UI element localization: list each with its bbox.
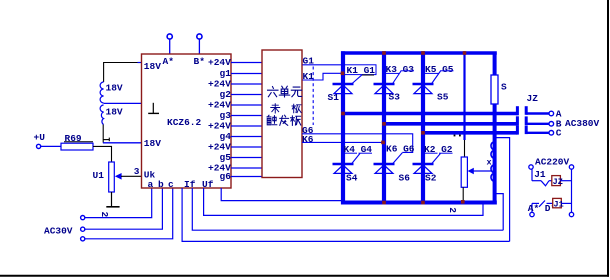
- terminals AC30V: [44, 216, 85, 241]
- tick marks: [454, 135, 461, 137]
- svg-text:+24V: +24V: [208, 142, 231, 153]
- svg-text:S1: S1: [328, 92, 340, 103]
- svg-text:S6: S6: [399, 173, 411, 184]
- label box K1 G1: [343, 65, 376, 76]
- resistor R69: [61, 133, 93, 150]
- svg-text:S: S: [501, 82, 507, 93]
- svg-text:K1 G1: K1 G1: [347, 65, 376, 76]
- svg-text:K6: K6: [302, 134, 314, 145]
- svg-text:R69: R69: [65, 133, 82, 144]
- svg-text:If: If: [184, 179, 196, 190]
- labels A B C AC380V: [556, 109, 600, 139]
- svg-text:AC30V: AC30V: [44, 226, 73, 237]
- pin labels +24V/g1..g6: [208, 57, 231, 182]
- thyristor S5: [413, 71, 449, 103]
- trigger board (six-unit trigger board): [262, 50, 302, 178]
- wire fuse to coil: [493, 104, 497, 205]
- terminal B*: [197, 34, 202, 54]
- svg-text:S4: S4: [346, 173, 358, 184]
- wire b: [85, 188, 162, 229]
- svg-text:A*: A*: [163, 56, 174, 67]
- wire +U to R69: [41, 145, 61, 147]
- junction dots: [341, 51, 467, 204]
- field potentiometer: [447, 51, 491, 213]
- svg-text:18V: 18V: [144, 138, 161, 149]
- svg-text:b: b: [158, 179, 164, 190]
- thyristor S1: [328, 75, 363, 103]
- svg-text:KCZ6.2: KCZ6.2: [167, 117, 202, 128]
- wire K6 from board: [302, 134, 383, 145]
- phase bus C: [421, 126, 517, 135]
- phase bus A: [341, 106, 517, 115]
- svg-text:S2: S2: [425, 173, 437, 184]
- ground symbol inside KCZ6.2: [148, 103, 159, 114]
- thyristor S3: [374, 71, 402, 103]
- svg-text:S5: S5: [437, 92, 449, 103]
- svg-text:g4: g4: [220, 131, 232, 142]
- wire a: [85, 188, 152, 218]
- thyristor S2: [413, 153, 441, 183]
- phase bus B: [382, 116, 517, 125]
- wire transformer bottom lead: [103, 125, 142, 143]
- wire K1 from board: [303, 71, 342, 82]
- svg-text:c: c: [168, 179, 174, 190]
- text 六单元 未极 触发板: [267, 86, 302, 125]
- bottom DC bus: [341, 201, 497, 205]
- wires KCZ6.2 to trigger board (12): [231, 63, 262, 177]
- svg-text:AC380V: AC380V: [565, 118, 600, 129]
- contact J1 + coil JZ row: [532, 169, 572, 212]
- svg-text:AC220V: AC220V: [535, 157, 570, 168]
- svg-text:g6: g6: [220, 171, 232, 182]
- thyristor S4: [333, 153, 361, 183]
- tap wire to If feedback: [495, 138, 510, 242]
- terminal +U: [34, 132, 46, 149]
- svg-text:18V: 18V: [106, 83, 123, 94]
- svg-text:2: 2: [447, 207, 458, 213]
- wire c: [85, 188, 173, 239]
- connector JZ: [526, 93, 553, 135]
- label K3 G3: [386, 64, 415, 75]
- svg-text:S3: S3: [389, 92, 401, 103]
- potentiometer U1: [93, 162, 142, 192]
- contact A*B* + coil J1 row: [528, 198, 574, 216]
- block KCZ6.2: [142, 54, 232, 190]
- svg-text:18V: 18V: [106, 107, 123, 118]
- fuse S: [491, 53, 507, 104]
- transformer T (two 18V secondaries): [100, 62, 141, 125]
- bridge leg 2: [382, 51, 386, 204]
- smoothing reactor coil: [487, 142, 495, 182]
- svg-text:x: x: [487, 158, 492, 168]
- wire R69 to U1: [93, 146, 112, 162]
- svg-text:2: 2: [99, 212, 110, 218]
- svg-text:+24V: +24V: [208, 100, 231, 111]
- svg-text:18V: 18V: [144, 61, 161, 72]
- bridge leg 3: [421, 51, 425, 204]
- svg-text:B*: B*: [194, 56, 205, 67]
- svg-text:J1: J1: [554, 199, 564, 209]
- label K2 G2: [424, 144, 453, 155]
- svg-text:+24V: +24V: [208, 79, 231, 90]
- wire If feedback 2: [192, 188, 503, 230]
- bridge leg 1: [341, 51, 345, 204]
- label K6 G6: [386, 144, 415, 155]
- svg-text:C: C: [556, 128, 562, 139]
- svg-text:3: 3: [134, 166, 140, 177]
- tap wire coil bottom: [495, 194, 504, 231]
- svg-text:g3: g3: [220, 110, 232, 121]
- svg-text:g1: g1: [220, 68, 232, 79]
- wire Uf feedback: [204, 188, 483, 215]
- svg-text:JZ: JZ: [527, 93, 539, 104]
- svg-text:+24V: +24V: [208, 57, 231, 68]
- svg-text:K6 G6: K6 G6: [386, 144, 415, 155]
- wire If feedback 1: [182, 188, 510, 241]
- svg-text:+24V: +24V: [208, 121, 231, 132]
- dashed continuation line: [312, 67, 314, 126]
- thyristor S6: [374, 153, 411, 184]
- svg-text:JZ: JZ: [553, 177, 563, 187]
- svg-text:+U: +U: [34, 132, 46, 143]
- label K5 G5: [425, 64, 454, 75]
- svg-text:g5: g5: [220, 152, 232, 163]
- svg-text:A*: A*: [528, 203, 539, 214]
- svg-text:g2: g2: [220, 89, 232, 100]
- terminal A*: [167, 34, 172, 54]
- ground below U1: [99, 192, 120, 218]
- svg-text:a: a: [148, 179, 154, 190]
- label K4 G4: [344, 144, 373, 155]
- wire G1 from board: [303, 56, 345, 67]
- wire minus bus to pin: [221, 188, 341, 201]
- svg-text:J1: J1: [534, 169, 546, 180]
- svg-text:U1: U1: [93, 170, 105, 181]
- wire G6 from board: [302, 125, 413, 152]
- relay control circuit AC220V: [529, 157, 574, 170]
- top DC bus: [341, 51, 497, 55]
